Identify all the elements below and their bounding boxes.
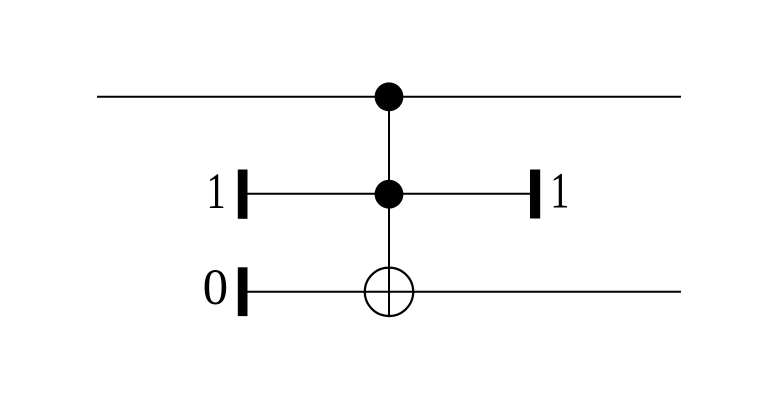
wire q2 (bottom qubit line) [248,291,682,293]
control dot on q0 [375,82,404,111]
wire q1 (middle qubit line) [248,193,531,195]
svg-text:1: 1 [550,162,569,219]
XOR target on q2 [365,268,413,316]
state bar q2 input [238,267,248,316]
state bar q1 output [530,170,540,219]
svg-text:0: 0 [203,260,229,316]
state bar q1 input [238,170,248,219]
wire q0 (top qubit line) [97,96,681,98]
wire vertical (control-to-target connector) [388,97,390,317]
svg-text:1: 1 [207,163,226,220]
control dot on q1 [375,180,404,209]
